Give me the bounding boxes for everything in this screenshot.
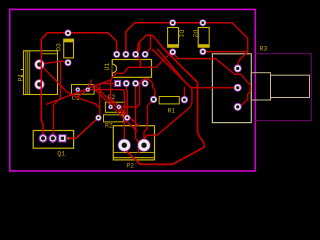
J1 pads [234,65,242,111]
R2 pads [95,115,130,121]
U1 pads top row (pins 1-4) [113,51,149,58]
label D2 [191,30,198,38]
label P1 [18,74,25,82]
label U1 [104,63,111,71]
label R3 [260,45,268,52]
svg-text:P1: P1 [18,74,25,82]
wire: diagonal across R2 into P2 [96,90,138,132]
wire: U1 pin3 stub to hook [136,44,140,55]
C2 pads [108,104,121,109]
P2 pads [118,139,151,152]
wire: U1 pin2 up over to D1 and D2 top pads [126,23,203,55]
wire: D1 bottom pad across to J1 pad3 [173,52,251,107]
wire: U1 pin7 down through P2 [136,83,139,152]
label R1 [168,107,176,114]
D2 pads [199,19,206,55]
wire: P1 vertical trace over pads [40,58,42,121]
svg-text:D2: D2 [191,30,198,38]
wire: U1 pin4 stub to hook [145,36,150,54]
wire: D3 bottom pad to P1 pad1 [39,61,68,64]
connector P1 silkscreen [21,51,58,95]
label D3 [56,43,63,51]
IC U1 silkscreen [112,60,151,78]
C1 pads [75,87,90,92]
potentiometer R3 silkscreen [251,73,309,100]
Q1 pin marker dot [67,137,70,140]
wire: U1 pin5 square pad left then down to R2 left pad [98,83,114,117]
svg-text:R1: R1 [168,107,176,114]
wire: R1 left pad arc around U1 pin8 pad over to C2 right pad [119,79,155,107]
wire: R1 left pad down into P2 right pad [144,99,154,138]
svg-text:D1: D1 [178,30,185,38]
resistor R2 silkscreen [104,115,124,122]
label C2 [108,94,116,101]
wire: diagonal across C2 [110,98,139,127]
wire: Q1 pad1 up through P1 pads, across top to U1 pin1 [41,33,116,139]
wire: outer bundle diagonal down right side to bottom zigzag into P2 left pad [125,49,205,165]
diode D2 silkscreen [198,28,209,48]
diode D3 silkscreen [64,39,74,58]
wire: diagonal C1 corner to R2 right pad [94,85,127,118]
label D1 [178,30,185,38]
wire: diagonal into C1 right pad [77,80,92,98]
resistor R1 silkscreen [159,97,179,104]
wire: bundle diagonal to J1 pad2 [153,50,235,88]
Q1 pads (pin3 square) [39,134,67,143]
svg-text:P2: P2 [126,163,134,170]
wire: C1 right pad across, down into P2 left pad [88,90,125,146]
D3 pads [65,30,72,67]
label P2 [126,163,134,170]
wire: D2 bottom pad to right side junction [203,51,248,53]
diode D1 silkscreen [168,28,179,48]
board outline (dimension layer) [10,9,256,171]
P1 pads [34,59,44,89]
wire: R1 right pad up to bundle [183,88,185,100]
connector P2 silkscreen [113,126,154,160]
capacitor C2 silkscreen [105,102,124,112]
label Q1 [57,150,65,157]
wire: Q1 marker to R2 left pad [69,118,99,139]
label C1 [72,95,80,102]
board edge tab (right protrusion) [256,54,312,121]
label R2 [105,122,113,129]
svg-text:R3: R3 [260,45,268,52]
wire: P1 pad1 shallow diagonal across C1 zone [39,65,99,108]
wire: bundle diagonal wrapping R1 pad down to P2 right pad [144,49,192,140]
D1 pads [169,19,176,55]
wire: C2 left pad up through U1 body to D1 bottom pad [111,52,173,107]
wire: hook from inner junction around pads 3-4 [137,35,163,67]
R1 pads [150,96,188,104]
transistor Q1 silkscreen [33,131,73,149]
wire: D2 top pad snaking down right side into J1 pad1 [203,23,248,69]
wire: U1 pin6 down to R2 right pad [125,83,128,117]
wire: long flat diagonal across C1 [47,80,112,105]
svg-text:Q1: Q1 [57,150,65,157]
svg-text:R2: R2 [105,122,113,129]
connector J1 silkscreen (right side) [212,54,251,123]
U1 pads bottom row (pins 5-8, pin5 square) [114,80,149,87]
svg-text:U1: U1 [104,63,111,71]
capacitor C1 silkscreen [72,85,95,95]
wire: junction down to Q1 pad2 [53,61,60,138]
svg-text:D3: D3 [56,43,63,51]
